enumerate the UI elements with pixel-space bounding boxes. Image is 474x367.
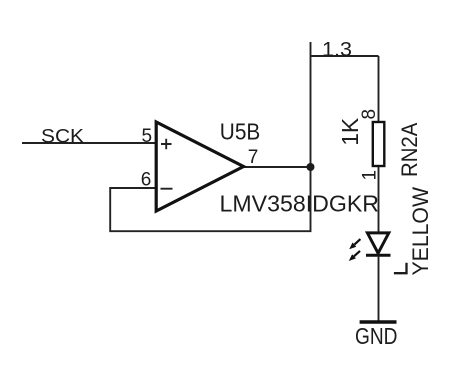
svg-text:SCK: SCK [41,125,84,147]
svg-text:1.3: 1.3 [322,39,352,61]
svg-text:6: 6 [141,170,152,191]
svg-text:7: 7 [248,147,259,168]
svg-text:U5B: U5B [220,119,260,145]
svg-text:RN2A: RN2A [397,122,422,177]
LED cathode bar [366,254,391,257]
wire top rail down to resistor pin 8 [378,56,380,121]
svg-text:8: 8 [359,109,380,120]
wire op-amp output pin 7 to node [242,166,311,168]
wire LED cathode down to ground [378,255,380,322]
svg-text:1K: 1K [337,117,363,146]
op-amp U5B triangle [156,122,243,211]
wire node up to top rail [310,56,312,167]
svg-text:YELLOW: YELLOW [408,187,433,276]
ground bar [360,320,397,323]
LED diode triangle [367,233,388,253]
LED emission arrow 1 [349,239,360,249]
wire resistor pin 1 down to LED anode [378,167,380,233]
wire feedback: pin6 left, down, bottom run, up to output node [110,167,310,231]
svg-text:LMV358IDGKR: LMV358IDGKR [220,190,380,216]
op-amp minus input mark [161,188,173,190]
node junction dot at op-amp output [307,163,315,171]
svg-text:GND: GND [355,323,398,349]
resistor RN2A body [373,122,385,166]
wire net SCK to op-amp pin 5 [22,142,156,144]
wire top rail horizontal to resistor branch [311,55,379,57]
LED emission arrow 2 [349,251,360,261]
op-amp plus input mark [161,139,172,150]
svg-text:5: 5 [142,126,153,147]
LED label L (rotated) [394,263,407,274]
wire top rail stub above [310,42,312,56]
svg-text:1: 1 [360,170,381,181]
